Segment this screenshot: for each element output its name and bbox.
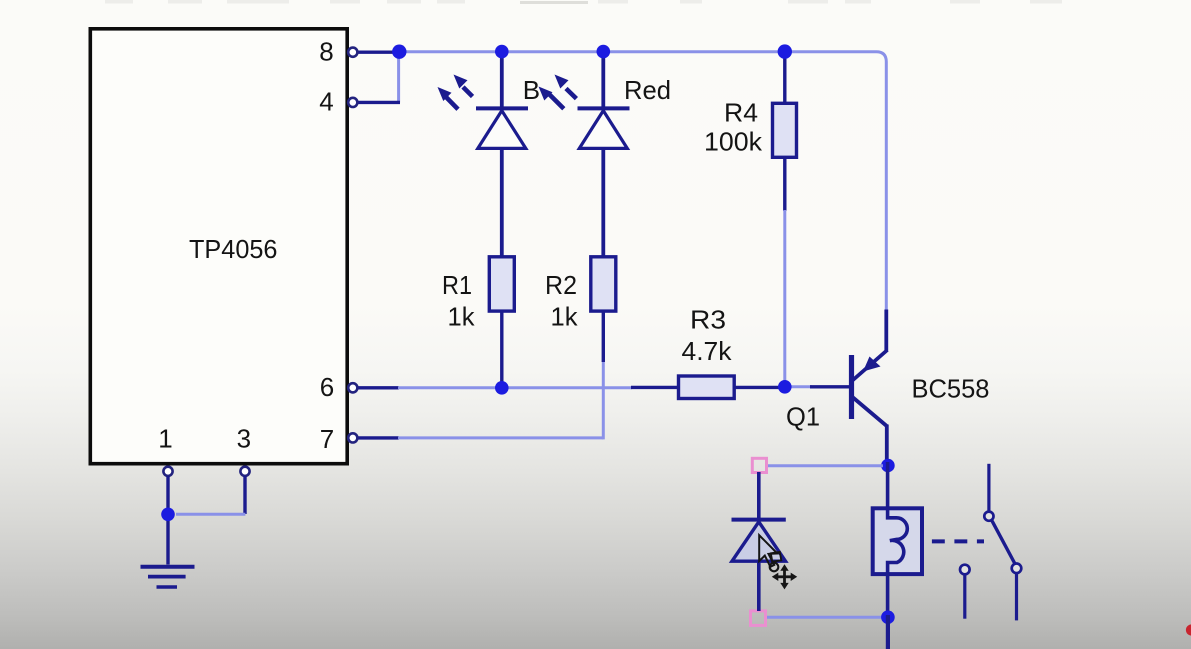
wire pin1 to ground — [166, 476, 169, 565]
diode D3 top lead — [757, 472, 761, 518]
red recording dot (clipped at edge) — [1186, 624, 1191, 635]
LED D2 lead to R2 — [601, 148, 605, 257]
transistor Q1 base bar — [849, 355, 854, 419]
resistor R2 — [591, 257, 616, 311]
wire Q1 base lead (dark) — [810, 385, 849, 388]
diode D3 bottom lead — [757, 561, 761, 611]
resistor R1 — [489, 257, 514, 311]
LED D1 emission arrow b — [463, 87, 473, 97]
wire R1 bottom lead — [500, 311, 503, 385]
svg-text:Q1: Q1 — [786, 402, 820, 432]
IC pin 8 terminal — [348, 48, 357, 57]
svg-text:8: 8 — [319, 36, 333, 66]
IC pin 3 terminal — [240, 467, 249, 476]
diode D3 top wire (light) — [765, 464, 883, 467]
wire R2 riser (light) — [602, 361, 605, 439]
wire pin4 riser (light) — [397, 53, 400, 102]
wire pin6 net (light) — [398, 386, 632, 389]
LED D2 triangle — [579, 111, 627, 149]
wire pin7 to R2 (light) — [398, 436, 603, 439]
svg-text:R3: R3 — [690, 305, 726, 335]
junction dot rail-D1 — [495, 45, 509, 59]
switch SW1 NO contact — [1012, 564, 1022, 574]
svg-text:1k: 1k — [551, 302, 579, 332]
svg-text:1: 1 — [158, 423, 172, 453]
transistor Q1 emitter arrow (PNP) — [863, 357, 881, 372]
switch SW1 common lead — [987, 464, 990, 511]
wire pin7 lead (dark) — [357, 436, 399, 439]
faint toolbar remnants top — [105, 0, 1062, 4]
wire pin8 lead (dark) — [357, 51, 399, 54]
wire R3 right lead — [734, 386, 781, 389]
svg-text:R2: R2 — [545, 270, 577, 300]
wire collector to relay — [886, 462, 890, 509]
wire R3 left lead — [631, 386, 679, 389]
junction dot ground — [161, 508, 175, 522]
junction dot rail-pin8 — [392, 45, 406, 59]
wire net V+ rail (light) — [399, 52, 886, 311]
LED D2 emission arrow b — [566, 89, 576, 99]
move cross icon — [772, 564, 797, 589]
LED D1 lead to R1 — [500, 148, 504, 257]
svg-text:4.7k: 4.7k — [682, 336, 733, 366]
LED D1 top lead — [500, 55, 504, 107]
cursor loop — [770, 563, 779, 572]
mouse cursor arrow — [759, 535, 777, 567]
svg-text:3: 3 — [237, 423, 251, 453]
switch SW1 lever — [992, 521, 1015, 564]
svg-text:BC558: BC558 — [912, 374, 990, 404]
junction dot relay bottom — [881, 610, 895, 624]
LED D2 emission arrow a — [549, 94, 564, 109]
svg-text:B: B — [523, 75, 540, 105]
svg-text:6: 6 — [320, 372, 334, 402]
wire R2 bottom lead (dark) — [602, 311, 605, 362]
LED D1 triangle — [478, 111, 526, 149]
svg-text:1k: 1k — [448, 302, 476, 332]
wire pin6 net (dark stub) — [357, 386, 399, 389]
wire base net (light) — [789, 385, 812, 388]
svg-text:R1: R1 — [442, 270, 472, 300]
diode D3 cathode bar — [732, 518, 786, 522]
relay actuator dashed link — [932, 539, 984, 543]
switch SW1 NC contact — [960, 565, 970, 575]
relay RL1 coil — [888, 508, 908, 575]
resistor R4 — [773, 103, 797, 157]
svg-text:100k: 100k — [704, 127, 763, 157]
switch SW1 NO lead — [1015, 574, 1018, 620]
selection handle top — [752, 458, 766, 472]
ground symbol — [141, 567, 195, 587]
IC U1 TP4056 body — [90, 29, 347, 464]
LED D2 top lead — [601, 55, 605, 107]
switch SW1 NC lead — [963, 576, 966, 619]
selection handle bottom — [751, 611, 766, 626]
svg-text:R4: R4 — [724, 98, 758, 128]
transistor Q1 emitter diagonal — [852, 310, 887, 381]
svg-text:4: 4 — [319, 87, 333, 117]
svg-text:7: 7 — [320, 424, 334, 454]
diode D3 bottom wire (light) — [765, 616, 883, 619]
wire pin3 lead — [243, 476, 246, 514]
wire pin4 lead (dark) — [357, 101, 400, 104]
wire relay bottom lead — [886, 574, 890, 612]
LED D1 cathode bar — [476, 106, 528, 110]
resistor R3 — [679, 376, 735, 399]
diode D3 triangle — [732, 522, 786, 561]
wire R4 top lead — [783, 55, 786, 103]
transistor Q1 collector diagonal — [852, 397, 887, 462]
junction dot rail-D2 — [597, 45, 611, 59]
LED D1 emission arrow a — [446, 97, 458, 109]
junction dot base-R4 — [778, 380, 792, 394]
LED D2 cathode bar — [578, 106, 630, 110]
wire R4 bottom lead (dark) — [783, 157, 786, 211]
junction dot rail-R4 — [778, 44, 792, 58]
junction dot pin6-R1 — [495, 381, 509, 395]
svg-text:TP4056: TP4056 — [189, 234, 278, 264]
relay RL1 coil box — [873, 508, 922, 574]
wire to battery off-screen — [886, 615, 890, 649]
IC pin 6 terminal — [348, 383, 357, 392]
junction dot collector — [881, 459, 895, 473]
wire R4 to base net (light) — [783, 210, 786, 384]
svg-text:Red: Red — [624, 75, 671, 105]
IC pin 4 terminal — [348, 98, 357, 107]
switch SW1 common contact — [984, 512, 993, 521]
IC pin 7 terminal — [348, 433, 357, 442]
cursor small square — [771, 552, 782, 562]
wire pin3 to pin1 (light) — [176, 513, 245, 516]
IC pin 1 terminal — [163, 467, 172, 476]
